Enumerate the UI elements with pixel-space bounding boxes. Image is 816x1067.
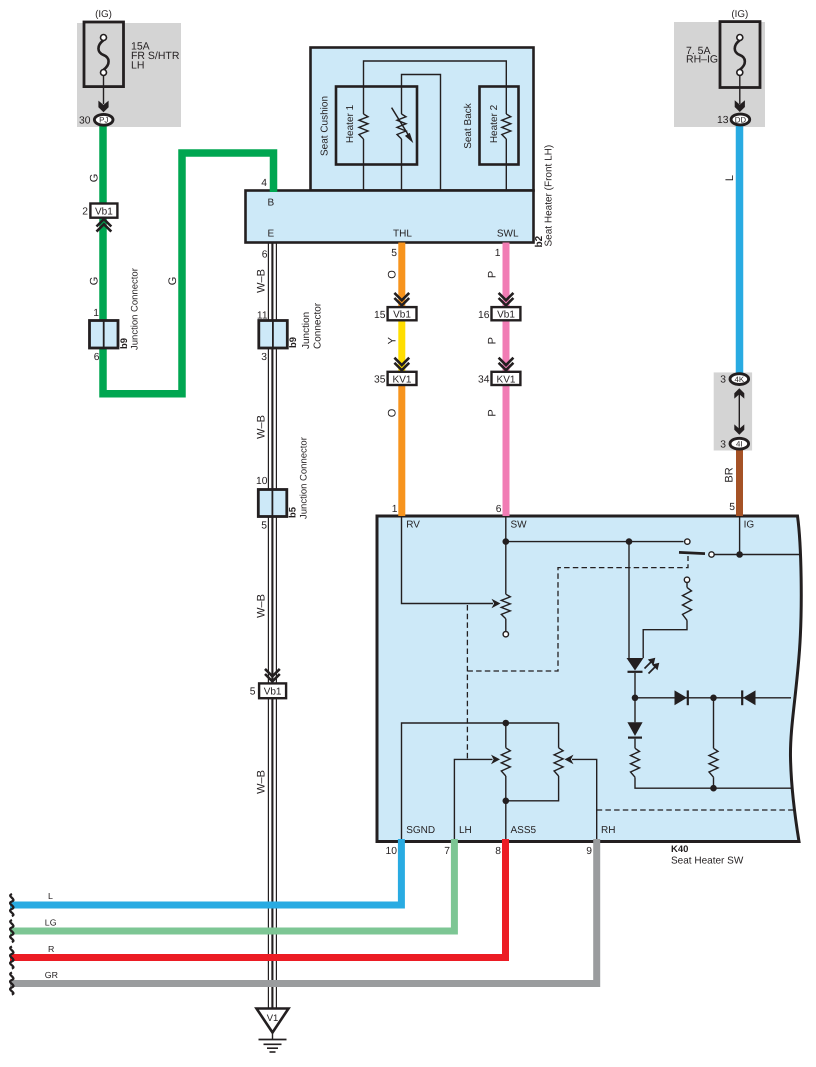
- svg-text:G: G: [167, 277, 179, 286]
- wire P pink to SW: [503, 384, 510, 516]
- svg-text:RH: RH: [601, 825, 615, 836]
- wire ASS5 internal: [505, 801, 507, 840]
- junction dot ASS5: [503, 798, 510, 805]
- svg-text:6: 6: [94, 352, 100, 363]
- svg-text:PJ: PJ: [99, 116, 108, 125]
- K40 seat heater switch box: [377, 516, 801, 842]
- connector PJ pin 30: [94, 114, 113, 125]
- svg-text:LH: LH: [459, 825, 472, 836]
- wire IG internal: [739, 517, 741, 555]
- junction connector b9 green: [90, 321, 119, 349]
- svg-text:3: 3: [720, 439, 726, 450]
- wire L blue from DD: [736, 124, 744, 374]
- seat cushion box: [336, 87, 417, 165]
- svg-text:30: 30: [79, 115, 91, 126]
- svg-text:G: G: [89, 174, 101, 183]
- seat heater b2 body box: [311, 48, 534, 191]
- svg-text:KV1: KV1: [497, 374, 516, 385]
- svg-text:E: E: [268, 229, 275, 240]
- diode D3 down-pointing: [634, 698, 636, 723]
- junction dot IG: [736, 551, 743, 558]
- svg-text:W–B: W–B: [256, 269, 268, 293]
- potentiometer RV/SW: [501, 594, 510, 619]
- svg-text:SWL: SWL: [497, 229, 519, 240]
- svg-text:K40: K40: [671, 844, 688, 855]
- svg-text:3: 3: [720, 375, 726, 386]
- svg-text:P: P: [487, 409, 499, 416]
- wire to LED anode: [628, 542, 630, 658]
- connector KV1 pin 34: [499, 358, 514, 365]
- connector 4I pin 3: [730, 438, 749, 449]
- wire O orange THL: [398, 243, 405, 309]
- svg-text:R: R: [48, 944, 54, 954]
- arrow into DD: [735, 100, 745, 112]
- connector Vb1 pin 16: [499, 293, 514, 300]
- seat heater b2 connector bar: [246, 191, 534, 243]
- wire break squiggle R: [10, 947, 13, 969]
- svg-text:1: 1: [495, 248, 501, 259]
- svg-text:Junction: Junction: [301, 312, 312, 349]
- svg-text:Vb1: Vb1: [264, 687, 282, 698]
- svg-text:Junction Connector: Junction Connector: [299, 437, 310, 519]
- junction dot pot top: [503, 720, 510, 727]
- junction dot D1/D2: [710, 695, 717, 702]
- svg-text:P: P: [487, 271, 499, 278]
- wire break squiggle L: [10, 894, 13, 916]
- wire RH internal: [572, 759, 597, 840]
- svg-text:35: 35: [374, 375, 386, 386]
- svg-text:10: 10: [256, 476, 268, 487]
- svg-text:5: 5: [729, 502, 735, 513]
- internal wire: heater1 top to heater2 top: [364, 61, 507, 114]
- svg-text:5: 5: [261, 521, 267, 532]
- internal wire: thermistor top bypass to connector: [402, 75, 441, 191]
- svg-text:Seat Heater SW: Seat Heater SW: [671, 856, 744, 867]
- potentiometer RH: [558, 723, 560, 748]
- svg-text:P: P: [487, 337, 499, 344]
- svg-text:1: 1: [93, 308, 99, 319]
- svg-text:Heater 2: Heater 2: [489, 104, 500, 143]
- fuse 15A FR S/HTR LH: [103, 76, 105, 105]
- svg-text:4: 4: [261, 178, 267, 189]
- svg-text:LH: LH: [131, 60, 144, 72]
- wire L blue SGND bottom: [10, 839, 401, 905]
- thermistor (variable resistor): [401, 139, 403, 190]
- svg-text:Seat Heater (Front LH): Seat Heater (Front LH): [544, 145, 555, 247]
- indicator resistor contact: [684, 577, 689, 582]
- svg-text:34: 34: [478, 375, 490, 386]
- wire P pink SWL: [503, 243, 510, 309]
- svg-text:G: G: [89, 277, 101, 286]
- connector KV1 pin 35: [394, 358, 409, 365]
- svg-text:5: 5: [391, 248, 397, 259]
- wire Y yellow: [398, 320, 405, 373]
- svg-text:O: O: [387, 270, 399, 279]
- junction dot R3/R4: [710, 785, 717, 792]
- svg-text:IG: IG: [744, 520, 755, 531]
- LED indicator: [627, 658, 644, 671]
- connector Vb1 pin 5 W-B: [265, 669, 280, 676]
- svg-text:(IG): (IG): [95, 9, 112, 20]
- svg-text:Vb1: Vb1: [393, 310, 411, 321]
- junction connector b5: [258, 490, 287, 517]
- svg-text:SGND: SGND: [406, 825, 435, 836]
- svg-text:Y: Y: [387, 336, 399, 344]
- svg-text:B: B: [268, 198, 275, 209]
- connector DD pin 13: [731, 114, 750, 125]
- svg-text:(IG): (IG): [731, 9, 748, 20]
- arrow into PJ: [98, 101, 108, 113]
- svg-text:ASS5: ASS5: [511, 825, 537, 836]
- wire LH internal: [454, 759, 492, 840]
- wire P pink mid: [503, 320, 510, 373]
- connector Vb1 pin 15: [394, 293, 409, 300]
- wire W-B white-black from E pin to ground: [267, 243, 269, 1009]
- junction connector b9 W-B: [259, 321, 288, 349]
- fuse 7.5A RH-IG: [739, 75, 741, 104]
- heater 1 resistor: [363, 139, 365, 190]
- svg-text:8: 8: [495, 846, 501, 857]
- junction dot SW: [503, 538, 510, 545]
- svg-text:2: 2: [82, 207, 88, 218]
- junction dot below LED: [632, 695, 639, 702]
- svg-text:4I: 4I: [736, 440, 743, 449]
- svg-text:11: 11: [257, 311, 268, 322]
- heater 2 resistor: [505, 139, 507, 190]
- wire break squiggle GR: [10, 973, 13, 995]
- svg-text:LG: LG: [45, 918, 57, 928]
- indicator resistor: [686, 583, 688, 588]
- connector Vb1 pin 2: [90, 204, 117, 218]
- svg-text:KV1: KV1: [393, 374, 412, 385]
- connector 4K pin 3: [738, 393, 740, 430]
- svg-text:4K: 4K: [734, 375, 744, 384]
- diode D2 left-pointing: [714, 697, 792, 699]
- resistor R3: [634, 739, 636, 749]
- svg-text:16: 16: [478, 310, 490, 321]
- wire G green circuit: [103, 124, 274, 394]
- wire O orange to RV: [398, 384, 405, 516]
- svg-text:10: 10: [386, 846, 398, 857]
- wire SW to switch contact: [506, 541, 684, 543]
- connector block background 4K/4I: [714, 372, 752, 450]
- wire LG light green LH bottom: [10, 839, 454, 931]
- svg-text:3: 3: [261, 352, 267, 363]
- svg-text:W–B: W–B: [256, 594, 268, 618]
- svg-text:W–B: W–B: [256, 415, 268, 439]
- svg-text:GR: GR: [45, 970, 58, 980]
- svg-text:Seat Cushion: Seat Cushion: [320, 96, 331, 156]
- diode D1 right-pointing: [635, 697, 714, 699]
- svg-text:O: O: [387, 408, 399, 417]
- svg-text:6: 6: [496, 504, 502, 515]
- svg-text:5: 5: [250, 687, 256, 698]
- svg-text:THL: THL: [393, 229, 412, 240]
- svg-text:9: 9: [586, 846, 592, 857]
- mechanical link dashed right: [597, 809, 796, 811]
- svg-text:1: 1: [392, 504, 398, 515]
- svg-text:BR: BR: [724, 467, 736, 482]
- wire break squiggle LG: [10, 920, 13, 942]
- junction dot LED branch: [626, 538, 633, 545]
- potentiometer LH: [505, 723, 507, 748]
- fuse block background right: [674, 22, 765, 127]
- wire RV internal: [402, 517, 494, 604]
- wire R red ASS5 bottom: [10, 839, 506, 958]
- svg-text:13: 13: [717, 115, 729, 126]
- wire SGND internal: [402, 723, 559, 840]
- svg-text:Vb1: Vb1: [497, 310, 515, 321]
- seat back box: [480, 87, 519, 165]
- svg-text:b9: b9: [288, 337, 299, 348]
- svg-text:b5: b5: [288, 506, 299, 518]
- svg-text:b9: b9: [119, 338, 130, 349]
- fuse block background left: [77, 23, 181, 127]
- svg-text:L: L: [724, 175, 736, 181]
- svg-text:RV: RV: [406, 520, 420, 531]
- svg-text:SW: SW: [511, 520, 528, 531]
- wire BR brown: [736, 449, 743, 516]
- svg-text:Heater 1: Heater 1: [345, 104, 356, 143]
- svg-text:Vb1: Vb1: [95, 206, 113, 217]
- svg-text:RH–IG: RH–IG: [686, 53, 718, 65]
- svg-text:Seat Back: Seat Back: [463, 102, 474, 149]
- svg-text:Connector: Connector: [313, 302, 324, 349]
- svg-text:DD: DD: [735, 115, 747, 124]
- svg-text:L: L: [48, 891, 53, 901]
- mechanical link dashed: [466, 605, 468, 759]
- svg-text:6: 6: [262, 250, 268, 261]
- ground V1: [257, 1009, 289, 1033]
- svg-text:V1: V1: [267, 1013, 279, 1024]
- wire GR gray RH bottom: [10, 839, 597, 984]
- wire SW internal: [505, 517, 507, 594]
- svg-text:W–B: W–B: [256, 770, 268, 794]
- resistor R4: [713, 698, 715, 749]
- svg-text:15: 15: [374, 310, 386, 321]
- svg-text:Junction Connector: Junction Connector: [130, 268, 141, 350]
- switch blade: [679, 552, 705, 553]
- svg-text:7: 7: [444, 846, 450, 857]
